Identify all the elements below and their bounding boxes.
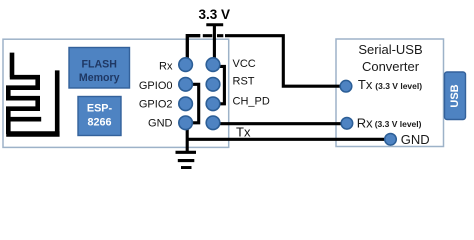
svg-text:ESP-: ESP- bbox=[87, 103, 113, 115]
svg-text:(3.3 V level): (3.3 V level) bbox=[375, 119, 422, 129]
svg-text:Tx: Tx bbox=[358, 77, 373, 92]
svg-text:Rx: Rx bbox=[357, 115, 373, 130]
svg-text:GPIO2: GPIO2 bbox=[139, 99, 173, 111]
svg-text:8266: 8266 bbox=[87, 117, 111, 129]
svg-text:GND: GND bbox=[401, 132, 430, 147]
svg-text:GPIO0: GPIO0 bbox=[139, 80, 173, 92]
svg-text:Tx: Tx bbox=[236, 124, 251, 139]
svg-text:FLASH: FLASH bbox=[82, 59, 117, 71]
svg-text:RST: RST bbox=[233, 75, 255, 87]
svg-text:GND: GND bbox=[148, 118, 173, 130]
svg-text:Converter: Converter bbox=[362, 59, 420, 74]
svg-text:USB: USB bbox=[449, 84, 461, 107]
svg-text:(3.3 V level): (3.3 V level) bbox=[375, 81, 422, 91]
svg-text:3.3 V: 3.3 V bbox=[199, 7, 231, 22]
svg-text:Serial-USB: Serial-USB bbox=[358, 42, 422, 57]
svg-text:Memory: Memory bbox=[79, 72, 120, 84]
svg-text:VCC: VCC bbox=[233, 58, 256, 70]
svg-text:CH_PD: CH_PD bbox=[233, 96, 270, 108]
svg-text:Rx: Rx bbox=[159, 60, 173, 72]
